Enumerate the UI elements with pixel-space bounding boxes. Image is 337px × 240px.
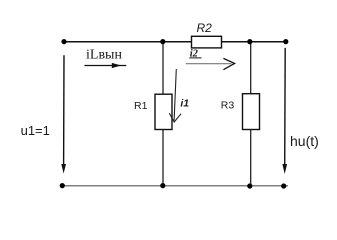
svg-text:R3: R3 bbox=[221, 100, 235, 112]
svg-text:i1: i1 bbox=[180, 97, 189, 109]
wire R3 branch lower bbox=[250, 129, 252, 186]
current arrow i1 open head bbox=[169, 113, 181, 122]
svg-text:R2: R2 bbox=[197, 21, 213, 35]
node G bottom R3 junction bbox=[247, 183, 252, 188]
node C top R3 junction bbox=[247, 39, 252, 44]
wire bottom horizontal bus bbox=[61, 185, 288, 187]
resistor R1 bbox=[155, 94, 172, 129]
node E bottom-left junction bbox=[60, 183, 65, 188]
wire hu branch vertical right bbox=[284, 48, 287, 166]
node B top R1 junction bbox=[160, 39, 165, 44]
wire R1 branch lower bbox=[162, 129, 164, 185]
node H bottom-right junction bbox=[281, 183, 286, 188]
node A top-left junction bbox=[61, 39, 66, 44]
current arrow iL bbox=[84, 65, 126, 67]
u1 voltage arrowhead bbox=[61, 164, 66, 174]
svg-text:u1=1: u1=1 bbox=[21, 123, 50, 138]
underline of i2 bbox=[189, 57, 201, 59]
hu(t) arrowhead bbox=[282, 164, 287, 174]
wire R1 branch upper bbox=[162, 42, 164, 94]
svg-text:iLвын: iLвын bbox=[86, 48, 122, 63]
node D top-right junction bbox=[283, 39, 288, 44]
current arrow i1 shaft bbox=[174, 69, 176, 121]
wire top horizontal bus bbox=[64, 41, 289, 43]
wire u1 branch vertical left bbox=[63, 55, 65, 166]
current arrow i2 shaft bbox=[186, 63, 232, 65]
current arrow i2 open head bbox=[223, 58, 234, 69]
wire R3 branch upper bbox=[250, 42, 252, 94]
resistor R3 bbox=[243, 94, 260, 130]
resistor R2 bbox=[192, 36, 222, 48]
svg-text:hu(t): hu(t) bbox=[290, 133, 319, 149]
node F bottom R1 junction bbox=[160, 183, 165, 188]
svg-text:R1: R1 bbox=[134, 100, 148, 112]
